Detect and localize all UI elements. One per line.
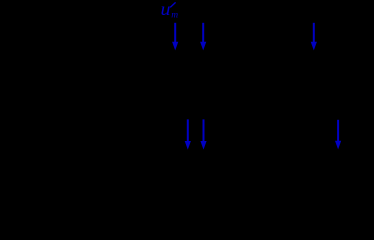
arrow E (bottom row middle)	[200, 119, 206, 149]
arrow C (top row right)	[311, 23, 317, 51]
arrow D (bottom row left)	[185, 119, 191, 149]
prime stroke of u'	[170, 2, 175, 7]
arrow B (top row middle)	[200, 23, 206, 51]
wire/arrow group	[172, 23, 341, 150]
label u'm (voltage u prime sub m)	[161, 0, 179, 21]
arrow F (bottom row right)	[335, 120, 341, 150]
svg-text:m: m	[171, 11, 178, 21]
arrow A (top row left)	[172, 23, 178, 51]
svg-text:u: u	[161, 0, 171, 19]
